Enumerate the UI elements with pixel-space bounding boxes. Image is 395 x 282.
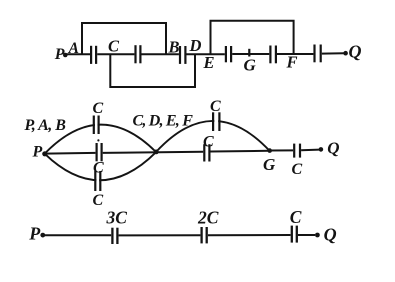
node P (bottom) bbox=[28, 224, 45, 244]
wire capacitor 2C to capacitor C bbox=[208, 234, 291, 236]
node P (top) bbox=[54, 46, 68, 63]
wire: right lens top arc bbox=[156, 121, 270, 152]
node tick G bbox=[248, 49, 250, 57]
capacitor 3C bbox=[112, 228, 117, 244]
wire capacitor 3C to capacitor 2C bbox=[119, 234, 201, 236]
wire: left lens bottom arc bbox=[45, 152, 156, 180]
wire capacitor B to capacitor E-G bbox=[187, 53, 225, 55]
capacitor C on straight wire (right) bbox=[204, 144, 209, 161]
svg-text:C: C bbox=[292, 161, 303, 178]
node Q (middle) bbox=[319, 139, 340, 158]
wire capacitor E-G to capacitor G-F bbox=[232, 53, 269, 55]
svg-text:G: G bbox=[244, 56, 257, 75]
svg-text:2C: 2C bbox=[197, 208, 219, 228]
svg-text:Q: Q bbox=[327, 139, 339, 158]
wire P to capacitor A bbox=[65, 53, 90, 55]
svg-text:A: A bbox=[68, 40, 79, 57]
svg-text:P: P bbox=[28, 224, 41, 244]
svg-text:P, A, B: P, A, B bbox=[24, 117, 67, 134]
svg-text:Q: Q bbox=[324, 225, 337, 245]
wire middle capacitor to right capacitor bbox=[103, 152, 204, 153]
svg-text:C: C bbox=[203, 134, 214, 151]
wire: bottom bracket from node C to node D bbox=[110, 54, 195, 87]
wire capacitor C to capacitor B bbox=[142, 53, 179, 55]
capacitor C on left lens bottom arc bbox=[95, 171, 100, 191]
capacitor C (bottom circuit) bbox=[292, 226, 297, 243]
stray dot above middle capacitor bbox=[97, 139, 99, 141]
svg-text:C: C bbox=[290, 207, 302, 227]
svg-text:C, D, E, F: C, D, E, F bbox=[133, 113, 194, 130]
wire P to middle capacitor bbox=[45, 152, 96, 155]
capacitor between G and F bbox=[270, 46, 276, 64]
svg-text:E: E bbox=[203, 53, 215, 72]
wire: left lens top arc bbox=[45, 125, 156, 154]
capacitor C on straight wire (left) bbox=[97, 143, 102, 161]
capacitor C bbox=[136, 45, 141, 63]
node junction (C,D,E,F) bbox=[154, 150, 159, 155]
wire capacitor C to node Q bbox=[298, 234, 315, 236]
svg-text:Q: Q bbox=[349, 42, 362, 62]
capacitor C between G and Q bbox=[294, 144, 300, 158]
svg-text:C: C bbox=[210, 98, 221, 115]
wire: top bracket from node A to node B bbox=[82, 23, 166, 54]
svg-text:B: B bbox=[168, 38, 180, 57]
capacitor C on right lens top arc bbox=[213, 112, 219, 131]
svg-text:F: F bbox=[286, 52, 298, 71]
svg-text:C: C bbox=[93, 192, 104, 209]
node Q (bottom) bbox=[315, 225, 337, 245]
node P (middle) bbox=[32, 144, 48, 161]
capacitor between E and G bbox=[226, 46, 231, 62]
wire P to capacitor 3C bbox=[43, 234, 111, 236]
capacitor B bbox=[180, 46, 185, 64]
wire capacitor F-Q to node Q bbox=[322, 52, 344, 54]
svg-text:P: P bbox=[32, 144, 43, 161]
capacitor 2C bbox=[202, 227, 207, 243]
capacitor between F and Q bbox=[315, 45, 321, 63]
svg-text:G: G bbox=[263, 155, 276, 174]
wire: top bracket from node E to node F bbox=[211, 21, 294, 54]
erase gaps in arcs for capacitors bbox=[95, 113, 218, 190]
capacitor C on left lens top arc bbox=[94, 116, 99, 135]
capacitor A bbox=[91, 46, 96, 64]
wire capacitor A to capacitor C bbox=[97, 53, 134, 55]
svg-text:C: C bbox=[93, 100, 104, 117]
wire capacitor to node Q bbox=[301, 149, 319, 152]
wire capacitor G-F to capacitor F-Q bbox=[277, 53, 313, 55]
node Q (top) bbox=[343, 42, 361, 62]
wire G to capacitor bbox=[270, 149, 293, 151]
wire right capacitor to node G bbox=[211, 150, 270, 153]
svg-text:D: D bbox=[189, 36, 202, 55]
svg-text:3C: 3C bbox=[106, 208, 128, 228]
svg-text:C: C bbox=[108, 37, 120, 56]
node G (middle) bbox=[263, 148, 276, 174]
